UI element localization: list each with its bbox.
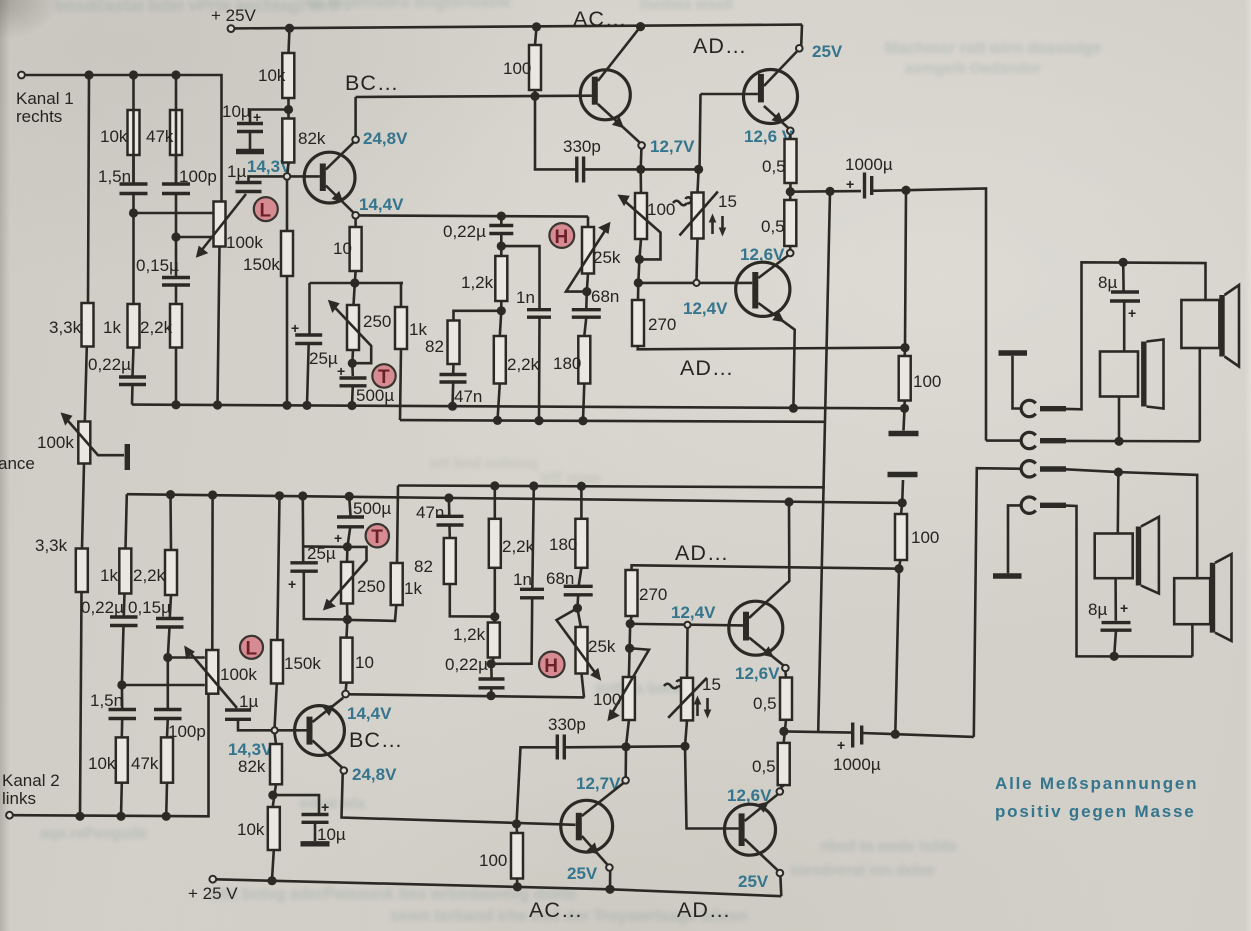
svg-text:1,5n: 1,5n (98, 167, 131, 186)
resistor 82 K2 (444, 538, 456, 584)
wire: balance chain vertical (88, 75, 89, 303)
svg-text:10: 10 (355, 653, 374, 672)
svg-text:270: 270 (639, 585, 667, 604)
capacitor 0,22u tone K2 (487, 659, 496, 668)
wiper 100k K2 (to 1u cap) (189, 652, 237, 709)
svg-text:100k: 100k (220, 665, 257, 684)
node 100/collector wire (530, 92, 539, 101)
ground above 100' K2 (901, 480, 904, 503)
resistor 150k K2 (271, 640, 283, 684)
svg-text:100: 100 (647, 200, 675, 219)
svg-text:L: L (260, 201, 272, 222)
current arrows 15 K2 (696, 700, 699, 716)
capacitor 1000u K1 (863, 173, 866, 199)
resistor 270 K1 (632, 300, 644, 346)
transistor BC' K2 (295, 706, 345, 756)
svg-text:10k: 10k (88, 754, 116, 773)
capacitor 1000u K2 (851, 723, 854, 748)
transistor AD' upper K2 (729, 601, 783, 655)
svg-text:330p: 330p (548, 715, 586, 734)
wire to 82 branch (454, 311, 502, 321)
svg-text:250: 250 (357, 577, 385, 596)
wiper 25k K2 (557, 608, 597, 674)
terminal emitter wire K2 (342, 691, 349, 698)
node A2 (117, 680, 126, 689)
wire 1u to base BC' (238, 719, 271, 730)
svg-text:+: + (837, 737, 845, 753)
+25V rail bottom (216, 879, 781, 896)
resistor 1k divider K1 (128, 304, 140, 348)
resistor 180 K2 (575, 519, 587, 568)
wire jack3 to speaker block 2 (1066, 469, 1118, 472)
svg-text:0,5: 0,5 (762, 157, 786, 176)
base wire AD' upper K2 (630, 624, 743, 626)
capacitor 25u K2 (290, 561, 317, 564)
svg-text:180: 180 (553, 354, 581, 373)
emitter BC K1 with arrow (326, 186, 354, 213)
svg-text:12,6V: 12,6V (727, 786, 772, 805)
loudspeaker 3 (tweeter K2) (1117, 472, 1120, 533)
svg-text:25k: 25k (593, 248, 621, 267)
svg-text:3,3k: 3,3k (49, 318, 82, 337)
wire 10k to 1,5n (132, 75, 135, 184)
svg-text:AD…: AD… (677, 898, 731, 922)
branch rail3 to 1k K2 (126, 494, 127, 548)
svg-text:AD…: AD… (693, 34, 747, 58)
wiper 100 trimmer K1 (624, 200, 661, 259)
circle L (loudness) K1 (254, 197, 278, 221)
svg-text:0,5: 0,5 (752, 757, 776, 776)
capacitor 8u K2 (1114, 578, 1117, 621)
resistor 1k K1 tone (395, 307, 407, 349)
svg-text:links: links (2, 789, 36, 808)
svg-text:47k: 47k (146, 127, 174, 146)
wire pot top to rail3 (211, 495, 214, 650)
long vertical rail2-area link (818, 191, 830, 732)
node input2/10k (116, 812, 125, 821)
svg-text:0,22µ: 0,22µ (443, 222, 486, 241)
wire 25u' branch (304, 573, 348, 620)
capacitor 500u K1 (351, 363, 354, 376)
svg-text:T: T (378, 367, 390, 388)
resistor 47k input K1 (170, 110, 182, 155)
feedback rail K2 (rail4) (398, 486, 825, 488)
emitter AD lower to ground rail (758, 303, 794, 408)
svg-text:+: + (1128, 305, 1136, 321)
svg-text:82: 82 (414, 557, 433, 576)
svg-text:positiv gegen Masse: positiv gegen Masse (995, 802, 1195, 821)
svg-text:AD…: AD… (680, 356, 734, 380)
node 0,22u' on emitter wire (486, 691, 495, 700)
resistor 2,2k tone K1 (494, 336, 506, 384)
svg-text:82k: 82k (238, 757, 266, 776)
loudspeaker 1 (tweeter K1) (1100, 352, 1138, 397)
resistor 82 K1 (448, 321, 460, 365)
terminal 12,4V' (684, 622, 690, 628)
jack 3 (K2 signal) (1021, 461, 1036, 477)
emitter BC' with arrow (313, 698, 344, 722)
resistor 10k input divider K1 (128, 110, 140, 155)
terminal Kanal 2 input (6, 812, 13, 819)
node input2/47k (162, 812, 171, 821)
svg-text:10µ: 10µ (222, 102, 251, 121)
node trimmer bracket (639, 239, 641, 259)
resistor 0,5 lower K2 (778, 743, 790, 785)
svg-text:8µ: 8µ (1088, 600, 1107, 619)
capacitor 10u K2 (302, 813, 329, 816)
svg-text:rechts: rechts (16, 107, 62, 126)
svg-text:AC…: AC… (573, 7, 627, 31)
terminal 14,3V base BC (284, 173, 291, 180)
resistor 2,2k K2 (165, 550, 177, 595)
wire 0,5 node to 1000u (790, 190, 861, 193)
wire 250' to node (346, 604, 349, 620)
collector BC' (313, 741, 343, 768)
wire: 3,3k to balance pot (85, 347, 87, 422)
node emitter wire / 0,22u tone (497, 212, 506, 221)
trimmer 100 K2 (623, 677, 635, 720)
svg-text:1µ: 1µ (227, 162, 246, 181)
wire: balance pot to 3,3k Kanal 2 (82, 464, 84, 549)
wiper 25k K1 (566, 229, 606, 292)
resistor 100 speaker side K2 (895, 514, 907, 560)
svg-text:BC…: BC… (345, 71, 399, 95)
svg-text:82k: 82k (298, 129, 326, 148)
svg-text:2,2k: 2,2k (140, 318, 173, 337)
wire 1000u' to output corner (862, 733, 974, 737)
wire top rail to 10k (289, 28, 290, 53)
svg-text:T: T (371, 527, 383, 548)
svg-text:25V: 25V (812, 42, 843, 61)
wire 25u branch (308, 283, 311, 334)
svg-text:Alle Meßspannungen: Alle Meßspannungen (995, 774, 1198, 793)
base wire AD lower K1 (638, 282, 752, 285)
node 25k/68n (587, 274, 588, 292)
svg-text:0,15µ: 0,15µ (128, 598, 171, 617)
ground rail K1 (rail1) (132, 405, 905, 409)
wire 25u to ground rail (307, 344, 309, 406)
capacitor 1n K1 (527, 308, 551, 311)
wire 330p' left to collector node (517, 747, 558, 824)
potentiometer 25k K2 (576, 627, 588, 674)
capacitor 68n K1 (585, 292, 588, 308)
circle L K2 (240, 636, 263, 659)
wire speaker1 to jack2 wire (1118, 397, 1121, 442)
capacitor 10u K1 (237, 122, 263, 125)
collector AD lower (758, 255, 788, 278)
wire: Kanal 1 input line (25, 75, 222, 202)
wire base terminal down to 150k (286, 180, 289, 231)
potentiometer 100k tone K1 (214, 202, 226, 247)
wire: +25V top supply rail (234, 25, 802, 29)
wire A to 100k pot body (134, 212, 215, 215)
resistor 10k K2 (116, 737, 128, 782)
wire B to 100k pot body (176, 236, 213, 239)
wire 10k to node 82k (287, 98, 290, 119)
resistor 3,3k (Kanal 2) (76, 549, 88, 593)
node 0,5/0,5 K2 (784, 720, 786, 743)
wire BC' collector to AC' base (342, 774, 576, 825)
base wire AD' lower (685, 746, 739, 828)
potentiometer 250 K2 (341, 562, 353, 604)
resistor 1,2k K2 (488, 623, 500, 658)
svg-text:+: + (253, 109, 261, 125)
svg-text:330p: 330p (563, 137, 601, 156)
capacitor 47n K1 (452, 364, 455, 373)
wiper balance pot (66, 419, 124, 456)
wire speaker4 bottom (1191, 624, 1194, 656)
ground bar balance wiper (125, 444, 130, 470)
svg-text:0,5: 0,5 (753, 694, 777, 713)
svg-text:10k: 10k (100, 127, 128, 146)
potentiometer 25k K1 (582, 227, 594, 274)
svg-text:0,22µ: 0,22µ (81, 598, 124, 617)
node A (129, 208, 138, 217)
svg-text:3,3k: 3,3k (35, 536, 68, 555)
wire node to 10u K2 (273, 795, 319, 813)
terminal 12,7V (639, 149, 642, 170)
wire jack1 to speaker block 1 (1066, 262, 1206, 409)
capacitor 1u K2 (225, 708, 251, 711)
svg-text:100k: 100k (226, 233, 263, 252)
svg-text:H: H (544, 656, 558, 677)
branch rail3 to 2,2k K2 (169, 495, 172, 550)
resistor 82k K2 (270, 744, 282, 784)
node 500u'/250' (343, 542, 352, 551)
svg-text:100: 100 (911, 528, 939, 547)
wire 1k down to rail2 crossing rail1 (400, 349, 401, 420)
transistor BC (K1 preamp) (304, 152, 355, 203)
wire node to 1n branch (501, 246, 539, 308)
capacitor 0,15u K2 (170, 595, 171, 617)
terminal Kanal 1 input (18, 72, 25, 79)
wire B2 to 100k pot K2 (168, 656, 205, 659)
svg-text:Kanal 1: Kanal 1 (16, 89, 74, 108)
emitter AD upper (764, 106, 789, 128)
wire A2 to 100k pot K2 (122, 684, 205, 687)
resistor 10k collector load K1 (282, 53, 294, 98)
capacitor 0,22u tone K1 (500, 216, 503, 224)
wire 25u' top to rail3 (301, 496, 304, 563)
svg-text:H: H (555, 227, 569, 248)
svg-text:25k: 25k (588, 637, 616, 656)
resistor 270 K2 (626, 570, 638, 616)
node 1,2k/82/2,2k K2 (493, 617, 496, 623)
svg-text:+: + (334, 530, 342, 546)
collector AD' upper to rail3 (749, 502, 789, 618)
capacitor 1n K2 (520, 588, 544, 591)
svg-text:BC…: BC… (349, 728, 403, 752)
emitter AD' lower with arrow (745, 794, 779, 821)
potentiometer 100k balance (78, 422, 90, 464)
svg-text:8µ: 8µ (1098, 273, 1117, 292)
svg-text:+: + (337, 363, 345, 379)
svg-text:82: 82 (425, 337, 444, 356)
trim symbol K2 (664, 680, 682, 688)
svg-text:12,7V: 12,7V (650, 137, 695, 156)
base wire AD upper (701, 93, 758, 96)
resistor 47k K2 (161, 737, 173, 782)
svg-text:0,22µ: 0,22µ (88, 355, 131, 374)
svg-text:L: L (246, 639, 258, 660)
wire jack4 to speaker block 2 bottom (1066, 506, 1192, 657)
svg-text:1k: 1k (100, 566, 118, 585)
wire 10 to node (353, 271, 356, 283)
wire 100p to node B (175, 155, 178, 184)
svg-text:100: 100 (503, 59, 531, 78)
svg-text:+ 25 V: + 25 V (188, 884, 238, 903)
svg-text:0,15µ: 0,15µ (136, 256, 179, 275)
wire 150k to ground rail (286, 276, 289, 405)
trim symbol (673, 197, 691, 205)
svg-text:12,4V: 12,4V (683, 299, 728, 318)
node 12,7V (636, 165, 645, 174)
capacitor 47n K2 (448, 527, 451, 539)
svg-text:1k: 1k (103, 318, 121, 337)
wire 1000u to output node (872, 189, 906, 192)
wire 82k to base terminal (288, 163, 289, 174)
wire BC collector to AC base (y=96) (356, 96, 592, 97)
resistor 1k K2 tone (391, 563, 403, 605)
trimmer 15 K2 (681, 678, 693, 721)
capacitor 8u K1 (1122, 262, 1125, 290)
svg-text:270: 270 (648, 315, 676, 334)
svg-text:1k: 1k (404, 579, 422, 598)
node input wire / 10k branch (129, 70, 138, 79)
node B (171, 232, 180, 241)
resistor 180 K1 (578, 336, 590, 384)
capacitor 330p K1 (575, 157, 578, 183)
wire jack2 to speakers K1 (1066, 440, 1200, 443)
wire 100k pot bottom to ground rail (218, 247, 220, 406)
capacitor 500u K2 (349, 496, 350, 515)
circle H K2 (539, 652, 565, 678)
svg-text:+: + (321, 799, 329, 815)
svg-text:10k: 10k (258, 66, 286, 85)
svg-text:68n: 68n (546, 569, 574, 588)
jack ground K2 (993, 573, 1022, 578)
node input wire / 47k branch (171, 70, 180, 79)
resistor 0,5 upper K2 (780, 678, 792, 720)
terminal base BC' (272, 727, 278, 733)
svg-text:Kanal 2: Kanal 2 (2, 771, 60, 790)
node trimmer bracket K2 (628, 648, 631, 677)
wire 330p left to collector node (535, 96, 577, 169)
trimmer 100 K1 (635, 193, 647, 239)
svg-text:100p: 100p (179, 167, 217, 186)
svg-text:12,6V: 12,6V (735, 664, 780, 683)
svg-text:25µ: 25µ (309, 349, 338, 368)
capacitor 1,5n K1 (120, 182, 148, 185)
node B2 (163, 653, 172, 662)
wiper 250 K1 (333, 306, 371, 364)
wire node to 15 trimmer node (641, 168, 699, 171)
terminal 12,6V (AD lower collector) (789, 246, 792, 250)
node input wire / balance branch (84, 70, 93, 79)
svg-text:500µ: 500µ (353, 499, 391, 518)
emitter AC K1 (598, 104, 640, 143)
wire node to 10u cap (250, 110, 289, 123)
svg-text:1000µ: 1000µ (833, 755, 881, 774)
node input2/balance (75, 812, 84, 821)
resistor 150k K1 (281, 231, 293, 276)
svg-text:2,2k: 2,2k (507, 355, 540, 374)
capacitor 0,22u K2 (123, 594, 126, 616)
node base wire AD' upper (628, 624, 631, 648)
potentiometer 100k tone K2 (206, 650, 218, 694)
svg-text:47k: 47k (131, 754, 159, 773)
wire base terminal to BC base (290, 175, 320, 178)
wire 25k' to emitter wire (582, 674, 585, 698)
svg-text:15: 15 (702, 675, 721, 694)
resistor 100 speaker side K1 (899, 356, 911, 401)
jack ground K1 (999, 350, 1028, 355)
svg-text:100: 100 (913, 372, 941, 391)
node 10/250/1k wire (350, 278, 359, 287)
wiper 100k K1 (to 1u cap) (201, 194, 246, 251)
svg-text:AD…: AD… (675, 541, 729, 565)
collector AD upper to 25V terminal (764, 51, 797, 86)
trimmer 15 K1 (692, 193, 704, 239)
emitter AC' upper diag (582, 783, 624, 816)
wire speaker2 bottom (1199, 348, 1202, 441)
node AC collector on rail (636, 22, 645, 31)
svg-text:47n: 47n (454, 387, 482, 406)
circle H (hoehen) K1 (549, 223, 574, 248)
svg-text:47n: 47n (416, 503, 444, 522)
svg-text:12,4V: 12,4V (671, 603, 716, 622)
jack 4 (K2 ground side) (1021, 497, 1036, 513)
svg-text:+ 25V: + 25V (211, 6, 257, 25)
capacitor 68n K2 (564, 585, 593, 588)
svg-text:1,2k: 1,2k (453, 625, 486, 644)
svg-text:14,4V: 14,4V (359, 195, 404, 214)
ground below 100 K1 (904, 408, 905, 430)
svg-text:250: 250 (363, 312, 391, 331)
terminal 12,7V' (624, 747, 627, 777)
collector BC K1 (326, 142, 354, 169)
capacitor 100p K2 (154, 708, 182, 711)
node base wire AD lower (638, 259, 639, 283)
resistor 0,5 upper K1 (785, 139, 797, 183)
transistor AD lower K1 (736, 262, 790, 316)
svg-text:25V: 25V (738, 872, 769, 891)
svg-text:1,5n: 1,5n (90, 691, 123, 710)
ground rail K2 (rail3) (127, 494, 902, 503)
feedback rail K1 (rail2) (400, 420, 826, 422)
svg-text:+: + (291, 320, 299, 336)
capacitor 330p K2 (556, 735, 559, 760)
wire node to 15' node (626, 745, 685, 748)
resistor 10k bias K2 (268, 807, 280, 850)
node 10'/250' wire (343, 615, 352, 624)
wire y283 (310, 282, 404, 285)
wire 1u to base node (249, 176, 284, 182)
circle T K2 (366, 524, 389, 547)
terminal +25V input (228, 25, 235, 32)
circle T (treble) K1 (372, 364, 395, 387)
wire to jack3 from K2 output (974, 468, 1023, 737)
transistor AC' K2 (561, 800, 613, 852)
resistor 100 collector AC K1 (529, 45, 541, 90)
resistor 0,5 lower K1 (784, 200, 796, 246)
jack 2 (K1 signal) (1021, 432, 1036, 448)
wire 25u' top tap (303, 545, 348, 548)
wire 270' to 100' speaker-side (632, 565, 900, 570)
node 82k/10k/10u K2 (273, 784, 276, 807)
resistor 2,2k divider K1 (170, 304, 182, 348)
svg-text:2,2k: 2,2k (502, 537, 535, 556)
